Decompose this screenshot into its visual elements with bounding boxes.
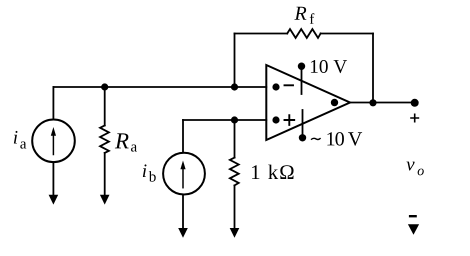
wire ia branch bottom — [52, 162, 54, 195]
resistor Rf — [287, 29, 320, 38]
label ia — [14, 131, 26, 149]
label -10V — [311, 132, 362, 146]
wire inverting input row — [53, 86, 266, 88]
wire Ra branch bottom — [104, 153, 106, 196]
junction dot 1k node — [231, 116, 238, 123]
label ib — [143, 164, 156, 181]
current source ia — [32, 120, 75, 163]
ground arrow ia — [49, 195, 59, 205]
current source ib — [163, 153, 205, 195]
ground arrow Ra — [100, 195, 110, 205]
label 1 kOhm — [252, 165, 294, 179]
resistor Ra — [100, 126, 109, 153]
power dot -10V — [299, 134, 306, 141]
wire 1k branch bottom — [234, 185, 236, 228]
wire feedback top horizontal left segment — [235, 33, 288, 35]
ground arrow output terminal — [408, 224, 419, 234]
op-amp U1 triangle — [266, 65, 350, 140]
power pin +10V line — [301, 66, 303, 94]
label vo — [406, 162, 423, 176]
power pin -10V line — [302, 110, 304, 138]
terminal dot output — [411, 99, 419, 107]
op-amp inverting input dot — [272, 83, 279, 90]
wire ib branch top — [182, 120, 184, 152]
wire noninverting input row — [183, 119, 266, 121]
wire output row — [350, 102, 415, 104]
label minus output terminal — [409, 215, 417, 217]
junction dot Ra top — [101, 83, 108, 90]
wire feedback left vertical — [234, 34, 236, 88]
ground arrow ib — [178, 228, 188, 238]
resistor 1k — [230, 158, 239, 186]
junction dot feedback output — [369, 99, 376, 106]
op-amp plus sign — [285, 115, 295, 125]
wire feedback right vertical — [372, 34, 374, 103]
junction dot inverting node — [231, 83, 238, 90]
op-amp noninverting input dot — [272, 116, 279, 123]
wire ia branch top — [52, 87, 54, 120]
label Ra — [115, 133, 137, 151]
label Rf — [294, 7, 314, 24]
label plus output terminal — [410, 114, 419, 123]
wire feedback top horizontal right segment — [321, 33, 373, 35]
wire Ra branch top — [104, 87, 106, 126]
ground arrow 1k — [230, 228, 240, 238]
wire 1k branch top — [234, 120, 236, 158]
power dot +10V — [298, 62, 305, 69]
op-amp output dot — [331, 99, 338, 106]
op-amp minus sign — [285, 84, 294, 86]
wire ib branch bottom — [182, 195, 184, 229]
label +10V — [311, 60, 347, 73]
